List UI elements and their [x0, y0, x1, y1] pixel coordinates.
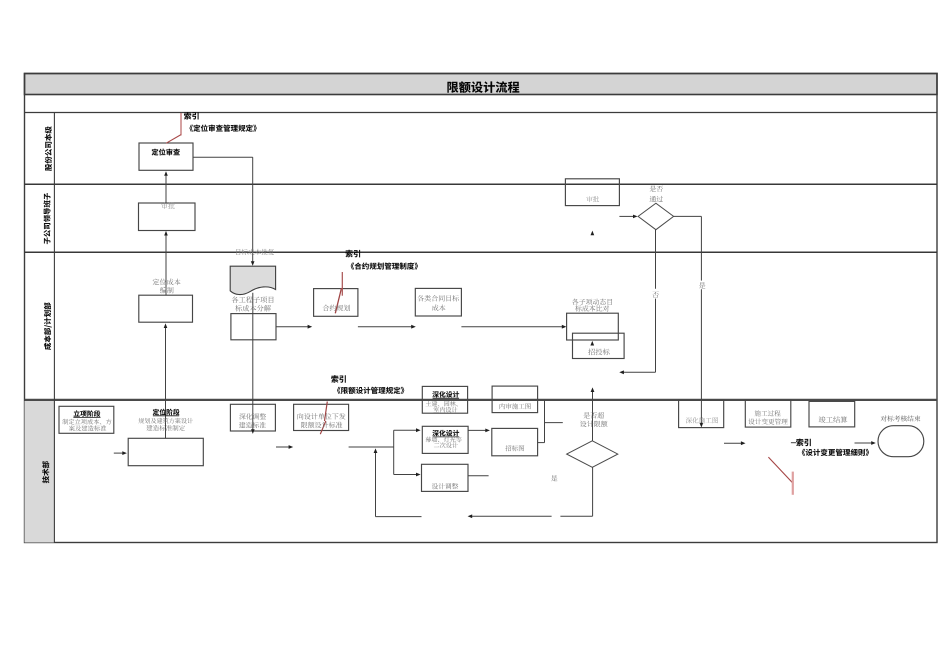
- wire 是否通过 yes-branch to 深化施工图: [674, 216, 704, 427]
- text heading 立项阶段: [74, 410, 101, 417]
- wire 审批(right) to 是否通过 diamond: [619, 215, 637, 219]
- document 目标成本批复: [230, 266, 275, 294]
- text label 对标考核结束: [881, 415, 921, 421]
- text note 索引 (design change): [796, 439, 811, 447]
- text label 规划及建筑方案设计: [138, 418, 193, 424]
- wire 是否超设计限额 yes-branch loop: [468, 467, 593, 518]
- wire 深化设计(2) to 招标图: [468, 429, 490, 433]
- text heading 深化设计 (1): [432, 391, 459, 397]
- process box 招标图: [492, 428, 538, 455]
- wire 向设计单位下发 to branch point: [349, 430, 394, 474]
- lane line 成本部计划部/技术部: [25, 399, 938, 401]
- text label 向设计单位下发: [298, 413, 346, 419]
- wire 是否超设计限额 no-branch up: [591, 387, 595, 440]
- terminator 对标考核结束: [878, 426, 924, 457]
- wire 立项阶段 to 定位阶段: [114, 451, 127, 455]
- process box 立项阶段: [59, 406, 114, 433]
- text label 是否: [650, 186, 663, 192]
- wire 深化施工图 to 施工过程 row: [724, 441, 746, 445]
- process box 内审施工图: [492, 386, 537, 413]
- text label 限额设计标准: [301, 422, 342, 429]
- text label 设计调整: [432, 483, 458, 489]
- text label 室内设计: [433, 407, 457, 413]
- text label 制定立项成本、方: [62, 419, 111, 425]
- wire 是否通过 no-branch back to 招投标: [619, 230, 655, 375]
- process box 审批 (right): [565, 179, 619, 206]
- wire 深化调整建造标准 to 向设计单位下发: [276, 445, 293, 449]
- process box 向设计单位下发限额设计标准: [294, 404, 349, 430]
- text label 定位成本: [153, 279, 181, 286]
- process box 招投标: [573, 333, 625, 358]
- text heading 定位阶段: [153, 409, 180, 416]
- underline 深化设计(2): [433, 436, 459, 438]
- text label 建造标准制定: [146, 425, 185, 431]
- text title 限额设计流程: [447, 81, 519, 93]
- red mark at 合约规划: [335, 272, 342, 313]
- text lane label 成本部/计划部: [44, 303, 52, 351]
- red mark at 向设计单位下发: [320, 402, 327, 435]
- text lane label 股份公司本级: [45, 126, 52, 171]
- process box 定位审查: [139, 143, 193, 170]
- text label 招投标: [588, 348, 609, 355]
- text label 设计限额: [580, 421, 607, 428]
- text label 二次设计: [434, 442, 458, 448]
- wire 成本分解 to 合约规划 row: [276, 325, 312, 329]
- process box 合约规划: [314, 289, 358, 317]
- text note 《合约规划管理制度》: [351, 262, 418, 269]
- arrow 招投标 up to 比对: [590, 341, 594, 346]
- arrow below 审批(right): [591, 231, 595, 236]
- wire loop return up to standards line: [374, 448, 422, 516]
- underline 深化设计(1): [433, 397, 459, 399]
- text label 审批 (right): [586, 196, 599, 202]
- text label 通过: [650, 196, 663, 202]
- wire 内审施工图/招标图 join elbow: [538, 400, 563, 442]
- text note 索引 (limit design): [331, 375, 346, 383]
- text heading 深化设计 (2): [432, 430, 459, 436]
- text label 各子项动态目: [572, 299, 612, 305]
- text label 审批 (left): [161, 202, 174, 208]
- wire 合约规划 to 各类合同目标成本 row: [358, 325, 416, 329]
- text label 定位审查: [152, 149, 180, 156]
- wire 竣工结算 to 对标考核结束: [855, 441, 876, 445]
- label column divider: [53, 113, 55, 543]
- underline 定位阶段: [153, 415, 179, 417]
- text label 目标成本批复: [236, 249, 274, 255]
- text label 是否超: [583, 412, 604, 418]
- text label 土建、园林、: [426, 401, 458, 407]
- wire branch to 设计调整: [394, 473, 421, 477]
- process box 深化调整建造标准: [230, 404, 275, 431]
- process box 深化设计(土建园林室内): [422, 386, 467, 413]
- wire 审批(left) up to 定位审查: [164, 171, 168, 203]
- text label 各类合同目标: [417, 295, 458, 301]
- text label 招标图: [505, 445, 524, 451]
- decision diamond 是否超设计限额: [567, 441, 618, 468]
- text label 是 (lane4): [551, 475, 557, 481]
- wire document down through 深化调整建造标准: [251, 293, 255, 434]
- text lane label 子公司领导班子: [43, 193, 50, 244]
- red mark at 定位审查 index: [166, 113, 181, 143]
- process box 深化设计(幕墙灯光): [422, 426, 468, 453]
- wire 定位成本编制 up to 审批(left): [164, 231, 168, 295]
- text label 各工程子项目: [232, 296, 274, 303]
- text label 设计变更管理: [748, 418, 787, 424]
- lane line 股份公司本级/子公司领导班子: [25, 183, 938, 185]
- text label 标成本分解: [235, 305, 271, 312]
- text label 案及建造标准: [69, 425, 106, 431]
- text label 深化施工图: [686, 417, 718, 423]
- text label 是 (lane3): [699, 282, 705, 288]
- text label 幕墙、灯光等: [426, 437, 462, 443]
- title bar: [25, 74, 938, 95]
- text note 《设计变更管理细则》: [802, 449, 869, 456]
- lane line 子公司领导班子/成本部计划部: [25, 251, 938, 253]
- text label 成本: [432, 305, 445, 311]
- process box 施工过程设计变更管理: [745, 400, 791, 427]
- text note 索引 (top): [184, 112, 199, 120]
- text label 合约规划: [323, 305, 350, 311]
- process box 各子项动态目标成本比对: [567, 313, 619, 340]
- text note 《定位审查管理规定》: [189, 124, 256, 131]
- red mark at 设计变更 index: [768, 457, 792, 495]
- process box 深化施工图: [679, 400, 724, 427]
- process box 竣工结算: [809, 401, 855, 427]
- lane 技术部 label cell (gray): [25, 400, 55, 543]
- process box (target cost breakdown): [231, 314, 276, 340]
- text label 编制: [160, 287, 174, 294]
- wire branch to 深化设计(2): [394, 428, 421, 432]
- dash before 索引 (design change): [791, 442, 796, 444]
- text lane label 技术部: [42, 461, 49, 483]
- wire 定位审查 to 目标成本批复 document: [193, 157, 255, 266]
- text note 《限额设计管理规定》: [337, 387, 404, 394]
- text label 内审施工图: [500, 403, 531, 409]
- header row line: [25, 112, 938, 114]
- text label 施工过程: [755, 410, 781, 416]
- process box 审批 (left): [139, 203, 196, 231]
- wire 定位阶段 up to 定位成本编制: [164, 323, 168, 438]
- decision diamond 是否通过: [638, 203, 674, 230]
- process box (positioning stage): [128, 438, 203, 465]
- underline 立项阶段: [73, 416, 100, 418]
- process box 设计调整: [422, 464, 469, 491]
- text label 深化调整: [239, 413, 266, 419]
- text note 索引 (contract): [345, 250, 360, 258]
- wire 设计调整 stub: [468, 475, 489, 477]
- text label 否 (lane3): [652, 291, 658, 297]
- text label 标成本比对: [575, 305, 609, 311]
- wire 各类合同目标成本 to 各子项比对: [461, 325, 566, 329]
- process box (positioning cost): [139, 295, 193, 322]
- outer frame: [25, 74, 938, 543]
- process box 各类合同目标成本: [415, 288, 461, 316]
- text label 建造标准: [239, 422, 266, 428]
- text label 竣工结算: [819, 416, 848, 423]
